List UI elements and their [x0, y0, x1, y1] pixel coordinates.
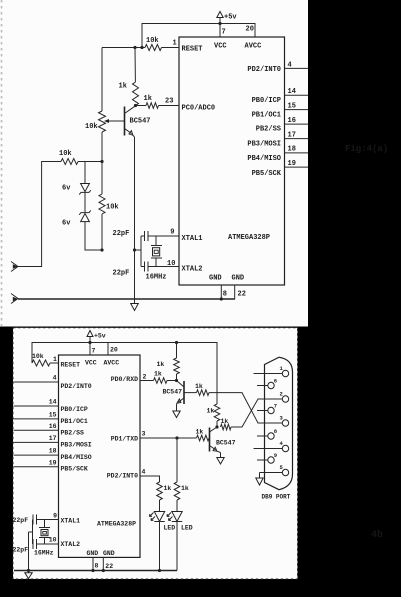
node rail junction A — [133, 46, 136, 49]
connector input arrow 2 — [11, 294, 18, 304]
svg-text:22pF: 22pF — [113, 230, 130, 238]
svg-text:16: 16 — [288, 117, 296, 125]
wire left rail page1 — [101, 48, 103, 251]
svg-text:BC547: BC547 — [163, 389, 183, 396]
svg-text:22: 22 — [238, 291, 246, 299]
svg-text:PB2/SS: PB2/SS — [256, 126, 281, 134]
svg-text:10k: 10k — [85, 123, 98, 131]
svg-text:10k: 10k — [59, 150, 72, 158]
svg-text:4: 4 — [142, 469, 146, 476]
svg-text:1k: 1k — [181, 485, 189, 492]
capacitor C1 22pF — [113, 230, 180, 241]
node xtal gnd junction — [27, 569, 30, 572]
svg-text:VCC: VCC — [85, 360, 97, 367]
svg-text:PD2/INT0: PD2/INT0 — [61, 383, 92, 390]
svg-text:GND: GND — [103, 550, 115, 557]
resistor R3 10k (lower) — [99, 194, 119, 214]
U1 right pin 19 wire — [285, 166, 309, 168]
svg-text:ATMEGA328P: ATMEGA328P — [97, 521, 136, 528]
J1 pin 3 — [258, 414, 289, 426]
svg-text:9: 9 — [170, 229, 174, 237]
svg-text:GND: GND — [87, 550, 99, 557]
node Q2 collector junction — [175, 379, 178, 382]
U2 left pin 14 wire — [14, 405, 59, 407]
svg-text:XTAL1: XTAL1 — [61, 518, 81, 525]
svg-text:XTAL2: XTAL2 — [61, 541, 81, 548]
svg-text:PB5/SCK: PB5/SCK — [61, 466, 88, 473]
LED D4 — [167, 500, 193, 532]
U2 left pin 17 wire — [14, 441, 59, 443]
svg-text:8: 8 — [95, 563, 99, 570]
svg-text:1k: 1k — [144, 95, 152, 103]
svg-text:1k: 1k — [196, 429, 204, 436]
resistor R10 1k (Q2 base) — [195, 383, 209, 395]
U1 right pin 4 wire — [285, 67, 309, 69]
svg-text:4b: 4b — [371, 529, 383, 541]
svg-text:15: 15 — [49, 411, 57, 418]
svg-text:PB1/OC1: PB1/OC1 — [61, 418, 88, 425]
wire ground bus page1 — [18, 298, 235, 300]
op IC U2 ATMEGA328P body — [59, 355, 141, 557]
svg-text:1k: 1k — [221, 418, 229, 425]
J1 pin 2 — [258, 390, 289, 402]
U1 right pin 16 wire — [285, 123, 309, 125]
node pullup junction page2 — [175, 341, 178, 344]
wire input branch page1 — [18, 162, 102, 267]
svg-text:GND: GND — [232, 275, 245, 283]
svg-text:PC0/ADC0: PC0/ADC0 — [182, 105, 216, 113]
svg-text:10k: 10k — [32, 353, 44, 360]
svg-text:14: 14 — [49, 399, 57, 406]
wire PD0/RXD net — [140, 380, 177, 382]
svg-text:17: 17 — [288, 132, 296, 140]
node bottom junction C — [100, 248, 103, 251]
U1 right pin 17 wire — [285, 138, 309, 140]
svg-text:1: 1 — [53, 356, 57, 363]
svg-text:6: 6 — [274, 377, 277, 384]
ground symbol page1 — [131, 299, 139, 311]
node gnd junction page2 — [91, 569, 94, 572]
wire +5v rail page1 — [142, 24, 255, 48]
resistor R5 1k (to PC0) — [144, 95, 159, 108]
node Q3 collector junction — [215, 425, 218, 428]
wire LED B branch — [176, 438, 178, 482]
svg-text:PB2/SS: PB2/SS — [61, 430, 85, 437]
U1 VCC pin 7 stub — [219, 18, 221, 38]
svg-text:6v: 6v — [62, 185, 71, 193]
crystal X2 16MHz — [34, 520, 54, 557]
svg-text:17: 17 — [49, 435, 57, 442]
resistor R1 10k (reset pullup) — [145, 37, 162, 51]
node +5v rail junction — [218, 22, 221, 25]
LED D3 — [150, 500, 176, 532]
svg-text:9: 9 — [274, 452, 277, 459]
svg-text:10: 10 — [167, 260, 175, 268]
ground symbol Q2 emitter — [173, 405, 180, 418]
page 1 white background — [0, 0, 308, 327]
svg-text:AVCC: AVCC — [245, 43, 262, 51]
svg-text:3: 3 — [142, 431, 146, 438]
U1 right pin 14 wire — [285, 94, 309, 96]
svg-text:6v: 6v — [62, 220, 71, 228]
J1 pin 6 — [257, 377, 277, 388]
node collector junction — [134, 104, 137, 107]
page 1 left perforation marks — [1, 0, 3, 326]
svg-text:7: 7 — [274, 402, 277, 409]
crystal X1 16MHz — [146, 236, 167, 282]
resistor R11 1k (Q3 base) — [196, 429, 210, 441]
svg-text:+5v: +5v — [94, 333, 106, 340]
svg-text:1k: 1k — [195, 383, 203, 390]
wire collector pullup — [134, 48, 136, 83]
svg-text:RESET: RESET — [61, 362, 81, 369]
U2 GND pin 8 stub — [92, 557, 94, 570]
svg-text:+5v: +5v — [224, 14, 237, 22]
svg-text:22: 22 — [105, 563, 113, 570]
svg-text:16: 16 — [49, 423, 57, 430]
transistor Q2 BC547 (mirrored) — [163, 381, 185, 405]
wire J1 pin5 ground — [259, 473, 261, 479]
capacitor C4 22pF — [13, 539, 59, 554]
svg-text:18: 18 — [49, 448, 57, 455]
op IC U1 ATMEGA328P body — [179, 37, 285, 285]
J1 pin 9 — [257, 452, 277, 463]
resistor R12 1k (Q3 collector pullup) — [207, 404, 220, 427]
resistor R13 1k (Q3 collector out) — [221, 418, 232, 430]
node LED A gnd junction — [158, 569, 161, 572]
svg-text:20: 20 — [246, 26, 254, 34]
svg-text:4: 4 — [288, 62, 292, 70]
svg-text:15: 15 — [288, 103, 296, 111]
U1 right pin 18 wire — [285, 152, 309, 154]
node +5v junction page2 — [88, 341, 91, 344]
U2 left pin 18 wire — [14, 454, 59, 456]
svg-text:16MHz: 16MHz — [146, 274, 167, 282]
J1 pin 7 — [257, 402, 277, 413]
svg-text:22pF: 22pF — [13, 547, 29, 554]
svg-text:RESET: RESET — [182, 46, 203, 54]
node rail junction B — [140, 46, 143, 49]
svg-text:7: 7 — [92, 348, 96, 355]
svg-text:10k: 10k — [106, 204, 119, 212]
U1 right pin 15 wire — [285, 109, 309, 111]
U2 VCC pin 7 stub — [89, 337, 91, 356]
capacitor C3 22pF — [13, 515, 59, 525]
svg-text:1k: 1k — [157, 361, 165, 368]
U2 left pin 19 wire — [14, 466, 59, 468]
svg-text:PB1/OC1: PB1/OC1 — [252, 112, 281, 120]
U2 left pin 16 wire — [14, 429, 59, 431]
svg-text:14: 14 — [288, 88, 296, 96]
wire +5v rail page2 — [32, 343, 217, 405]
svg-text:PB3/MOSI: PB3/MOSI — [247, 141, 281, 149]
wire emitter rail page1 — [134, 137, 136, 299]
resistor R4 1k (collector) — [119, 82, 139, 106]
resistor R6 10k (input) — [59, 150, 78, 165]
J1 pin 4 — [254, 440, 289, 452]
node resistor junction E — [100, 160, 103, 163]
U1 GND pin 8 stub — [220, 285, 222, 299]
wire cap bracket page1 — [135, 236, 145, 267]
svg-text:10k: 10k — [146, 37, 159, 45]
svg-text:XTAL1: XTAL1 — [182, 235, 203, 243]
wire LED A to ground — [159, 522, 161, 571]
zener diode D1 6v — [62, 184, 91, 195]
transistor Q1 BC547 — [125, 106, 151, 137]
J1 pin 1 — [254, 365, 289, 377]
svg-text:1k: 1k — [119, 83, 127, 91]
svg-text:PB0/ICP: PB0/ICP — [61, 406, 88, 413]
svg-text:PD1/TXD: PD1/TXD — [111, 436, 138, 443]
connector J1 DB9 shell — [265, 357, 293, 490]
svg-text:7: 7 — [222, 29, 226, 37]
svg-text:BC547: BC547 — [130, 118, 151, 126]
svg-text:22pF: 22pF — [13, 517, 29, 524]
zener diode D2 6v — [62, 210, 91, 227]
U2 left pin 15 wire — [14, 418, 59, 420]
U2 pin 20 stub — [107, 343, 109, 356]
svg-text:9: 9 — [53, 513, 57, 520]
svg-text:PB4/MISO: PB4/MISO — [247, 155, 281, 163]
wire zener branch — [85, 162, 102, 251]
J1 pin 8 — [257, 428, 278, 439]
capacitor C2 22pF — [113, 262, 180, 278]
connector input arrow 1 — [11, 262, 18, 272]
svg-text:ATMEGA328P: ATMEGA328P — [228, 234, 270, 242]
svg-text:PD2/INT0: PD2/INT0 — [107, 473, 138, 480]
wire PD2 right pin — [140, 476, 160, 482]
svg-text:4: 4 — [53, 375, 57, 382]
ground symbol DB9 — [256, 478, 263, 485]
svg-text:23: 23 — [165, 98, 173, 106]
svg-text:XTAL2: XTAL2 — [182, 266, 203, 274]
svg-text:8: 8 — [223, 291, 227, 299]
U2 left pin 4 wire — [14, 381, 59, 383]
power +5v symbol page1 — [217, 12, 238, 22]
svg-text:1k: 1k — [207, 408, 215, 415]
svg-text:PD0/RXD: PD0/RXD — [111, 376, 138, 383]
wire PD1/TXD net — [140, 437, 210, 439]
svg-text:10: 10 — [49, 537, 57, 544]
wire LED B to ground — [176, 522, 178, 571]
wire cap bracket page2 — [29, 520, 34, 545]
svg-text:GND: GND — [209, 275, 222, 283]
svg-text:22pF: 22pF — [113, 270, 130, 278]
wire Q2 base to DB9 — [184, 393, 282, 423]
potentiometer R2 10k — [85, 111, 125, 132]
svg-text:BC547: BC547 — [216, 440, 236, 447]
ground symbol page2 — [25, 569, 32, 579]
svg-text:LED: LED — [164, 525, 176, 532]
svg-text:1: 1 — [173, 40, 177, 48]
resistor R14 1k (LED A) — [157, 482, 172, 500]
svg-text:PB4/MISO: PB4/MISO — [61, 454, 92, 461]
svg-text:VCC: VCC — [214, 43, 227, 51]
svg-text:PD2/INT0: PD2/INT0 — [247, 66, 281, 74]
svg-text:2: 2 — [280, 390, 283, 397]
node gnd junction 22 page2 — [102, 569, 105, 572]
svg-text:AVCC: AVCC — [104, 360, 120, 367]
wire collector to pin23 — [136, 105, 180, 107]
U1 GND pin 22 stub — [234, 285, 236, 299]
page 2 white background — [13, 328, 298, 579]
U2 GND pin 22 stub — [102, 557, 104, 570]
ground symbol Q3 emitter — [217, 453, 224, 465]
resistor R7 10k (U2 reset pullup) — [32, 353, 59, 366]
svg-text:1k: 1k — [154, 371, 162, 378]
svg-text:PB3/MOSI: PB3/MOSI — [61, 442, 92, 449]
node gnd junction — [220, 297, 223, 300]
svg-text:Fig:4(a): Fig:4(a) — [345, 144, 388, 154]
svg-text:LED: LED — [181, 525, 193, 532]
resistor R15 1k (LED B) — [174, 482, 189, 500]
wire RESET net page1 — [102, 47, 179, 49]
power +5v symbol page2 — [87, 331, 106, 340]
svg-text:16MHz: 16MHz — [34, 550, 54, 557]
svg-text:DB9 PORT: DB9 PORT — [262, 494, 291, 501]
svg-text:20: 20 — [110, 347, 118, 354]
transistor Q3 BC547 — [210, 427, 236, 453]
svg-text:18: 18 — [288, 146, 296, 154]
node bottom junction D — [133, 248, 136, 251]
resistor R9 1k (Q2 collector pullup) — [157, 343, 180, 381]
svg-text:19: 19 — [288, 160, 296, 168]
svg-text:PB5/SCK: PB5/SCK — [252, 170, 282, 178]
svg-text:1k: 1k — [164, 485, 172, 492]
resistor R8 1k (RXD series) — [154, 371, 168, 384]
wire ground bus page2 — [14, 570, 177, 572]
svg-text:PB0/ICP: PB0/ICP — [252, 97, 281, 105]
svg-text:19: 19 — [49, 459, 57, 466]
node LED-B junction — [175, 436, 178, 439]
svg-text:2: 2 — [143, 374, 147, 381]
wire xtal ground branch — [28, 532, 30, 571]
wire Q3 out to DB9 — [231, 399, 282, 427]
J1 pin 5 — [260, 464, 289, 476]
